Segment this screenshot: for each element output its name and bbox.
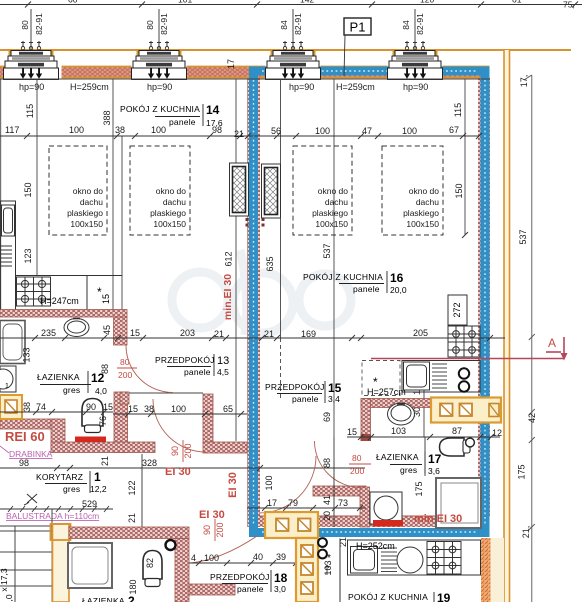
- svg-text:82: 82: [145, 558, 155, 568]
- bathroom12 north wall: [0, 310, 127, 318]
- svg-text:plaskiego: plaskiego: [150, 208, 186, 218]
- wall korytarz/przedpokoj18 vertical: [175, 539, 189, 602]
- dimension labels y=136: [5, 125, 459, 139]
- fridge dashed box 16: [362, 361, 400, 396]
- bathroom17 shower: [436, 478, 481, 528]
- svg-text:47: 47: [362, 126, 372, 136]
- east wall of unit 16 (under blue): [478, 78, 490, 516]
- svg-text:3,0: 3,0: [274, 584, 286, 594]
- svg-text:3,6: 3,6: [428, 466, 440, 476]
- okno do dachu texts: [67, 186, 439, 229]
- svg-text:79: 79: [288, 498, 298, 508]
- room label PRZEDPOKOJ 15: [265, 381, 342, 404]
- wire: party line x281: [280, 79, 282, 338]
- svg-text:84: 84: [401, 20, 411, 30]
- svg-text:12,2: 12,2: [90, 484, 107, 494]
- svg-text:133: 133: [22, 347, 32, 362]
- svg-text:73: 73: [338, 498, 348, 508]
- svg-text:x 17,3: x 17,3: [0, 568, 9, 591]
- svg-text:100: 100: [315, 126, 330, 136]
- dimension chain y=412 (toilet door): [0, 409, 113, 415]
- electrical box 12 (yellow): [0, 395, 22, 419]
- south wall of unit 16 (under blue): [259, 516, 481, 527]
- przedpokoj18 door arc: [191, 536, 257, 563]
- svg-text:H=259cm: H=259cm: [70, 82, 109, 92]
- svg-text:dachu: dachu: [416, 197, 439, 207]
- window leader labels 80 / 82-91: [20, 13, 425, 35]
- svg-text:17: 17: [267, 498, 277, 508]
- kitchen16 knobs: [459, 368, 469, 378]
- svg-text:EI 30: EI 30: [199, 509, 225, 521]
- kitchen19 table circle: [397, 547, 423, 573]
- korytarz inner dim labels: [82, 480, 137, 523]
- svg-text:80: 80: [352, 453, 362, 463]
- red threshold unit16 south: [373, 520, 403, 527]
- svg-text:panele: panele: [169, 117, 196, 127]
- room label POKOJ Z KUCHNIA 16: [303, 271, 407, 295]
- svg-text:115: 115: [453, 103, 463, 117]
- svg-text:14: 14: [206, 103, 220, 117]
- svg-text:80: 80: [145, 20, 155, 30]
- yellow door box bottom (horizontal): [265, 512, 318, 538]
- svg-text:142: 142: [300, 0, 314, 5]
- svg-text:38: 38: [144, 404, 154, 414]
- svg-text:panele: panele: [292, 394, 319, 404]
- svg-text:panele: panele: [353, 284, 380, 294]
- svg-text:15: 15: [347, 427, 357, 437]
- svg-text:hp=90: hp=90: [19, 82, 44, 92]
- svg-text:ŁAZIENKA: ŁAZIENKA: [376, 452, 419, 462]
- svg-text:1: 1: [94, 470, 101, 484]
- dim labels bottom-left: [128, 558, 155, 595]
- svg-text:82-91: 82-91: [159, 13, 169, 35]
- svg-text:okno do: okno do: [156, 186, 187, 196]
- svg-text:74: 74: [36, 402, 46, 412]
- svg-text:15: 15: [103, 402, 113, 412]
- toilet-door U wall bottom band: [51, 442, 155, 453]
- svg-text:21: 21: [234, 129, 244, 139]
- svg-text:17,: 17,: [519, 75, 529, 88]
- svg-text:P1: P1: [350, 20, 366, 35]
- svg-text:635: 635: [265, 256, 275, 271]
- svg-text:17: 17: [428, 452, 442, 466]
- svg-text:dachu: dachu: [163, 197, 186, 207]
- ventilation shaft left: [230, 163, 249, 216]
- top dimension numbers (cut off): [68, 0, 575, 9]
- svg-text:min.EI 30: min.EI 30: [222, 274, 234, 320]
- svg-text:H=259cm: H=259cm: [336, 82, 375, 92]
- svg-text:20,0: 20,0: [390, 285, 407, 295]
- svg-text:PRZEDPOKÓJ: PRZEDPOKÓJ: [210, 572, 270, 582]
- svg-text:45: 45: [102, 325, 112, 335]
- svg-text:4,0: 4,0: [95, 386, 107, 396]
- svg-text:200: 200: [183, 443, 193, 458]
- yellow meter box bottom (vertical): [296, 538, 318, 602]
- bathroom12 door arc: [126, 346, 173, 393]
- svg-text:200: 200: [118, 370, 132, 380]
- svg-text:4: 4: [191, 553, 196, 563]
- dimension chain y=414 (przedpokoj13): [113, 411, 247, 417]
- svg-text:103: 103: [323, 560, 333, 575]
- bathroom17 toilet: [440, 438, 475, 456]
- svg-text:21,: 21,: [521, 526, 531, 539]
- svg-text:15: 15: [328, 381, 342, 395]
- vertical labels mid: [22, 347, 423, 426]
- svg-text:98: 98: [19, 458, 29, 468]
- dimension labels y=338: [41, 325, 428, 339]
- red door label 90/200 rotated (unit18 entry): [202, 519, 225, 541]
- przedpokoj13 north wall piece: [120, 392, 129, 404]
- vertical dim labels upper: [23, 103, 464, 272]
- svg-text:38: 38: [115, 125, 125, 135]
- bath17 dim chain y=437: [347, 434, 500, 440]
- svg-text:272: 272: [452, 302, 462, 317]
- east wall below unit16 (orange hatch): [481, 538, 491, 602]
- dim chain y=563 przedpokoj18: [189, 560, 300, 566]
- svg-text:537: 537: [518, 229, 528, 244]
- svg-text:75,: 75,: [563, 0, 575, 10]
- svg-text:okno do: okno do: [318, 186, 349, 196]
- dim labels kitchen19: [323, 537, 348, 576]
- kitchen19 counter: [340, 539, 481, 602]
- stairs bottom-left: [0, 509, 52, 602]
- bathroom17 west wall: [361, 399, 371, 436]
- svg-text:100x150: 100x150: [153, 219, 186, 229]
- svg-text:100: 100: [402, 126, 417, 136]
- washing machine 12: [0, 366, 16, 392]
- wire: unit16 axis x334: [333, 79, 335, 437]
- svg-text:175: 175: [414, 481, 424, 496]
- shaft 16 box with 272: [448, 295, 467, 325]
- dimension chain y=338: [0, 335, 505, 341]
- svg-text:84: 84: [279, 20, 289, 30]
- bathtub 12: [0, 321, 25, 364]
- svg-text:13: 13: [217, 355, 229, 367]
- svg-text:40: 40: [253, 552, 263, 562]
- red door label 90/200 rotated (korytarz): [170, 440, 193, 462]
- svg-text:41: 41: [322, 495, 332, 505]
- bathroom17 washing machine: [370, 492, 402, 524]
- red fire labels: [5, 274, 239, 521]
- red door label 80/200 (bath12): [117, 357, 137, 380]
- svg-text:235: 235: [41, 328, 56, 338]
- wall end cap: [361, 434, 372, 441]
- red shower threshold: [373, 521, 400, 527]
- svg-text:15: 15: [130, 328, 140, 338]
- svg-text:100x150: 100x150: [70, 219, 103, 229]
- svg-text:100x150: 100x150: [406, 219, 439, 229]
- svg-text:15: 15: [101, 294, 111, 304]
- svg-text:4,5: 4,5: [217, 367, 229, 377]
- bathroom12 east wall upper: [114, 317, 128, 345]
- svg-text:18: 18: [274, 571, 288, 585]
- svg-text:200: 200: [350, 466, 364, 476]
- svg-text:203: 203: [180, 328, 195, 338]
- svg-text:21: 21: [127, 513, 137, 523]
- svg-text:82-91: 82-91: [34, 13, 44, 35]
- bathtub 18: [68, 543, 112, 588]
- svg-text:19: 19: [437, 591, 451, 602]
- korytarz dim chain y=468: [0, 465, 365, 471]
- svg-text:POKÓJ Z KUCHNIA: POKÓJ Z KUCHNIA: [120, 104, 200, 114]
- room label PRZEDPOKOJ 13: [155, 354, 229, 377]
- svg-text:min EI 30: min EI 30: [414, 513, 462, 525]
- svg-text:69: 69: [322, 412, 332, 422]
- red threshold bar korytarz: [75, 437, 106, 443]
- watermark: [172, 250, 351, 335]
- kitchen 14 counter left: [0, 201, 122, 310]
- room label LAZIENKA 17: [376, 452, 442, 476]
- svg-text:ŁAZIENKA: ŁAZIENKA: [82, 596, 125, 602]
- stove 14: [17, 277, 51, 306]
- KORYTARZ room label: [36, 470, 107, 494]
- room label POKOJ Z KUCHNIA 14: [120, 103, 223, 128]
- przedpokoj15 door arc: [259, 456, 316, 513]
- svg-text:101: 101: [178, 0, 192, 5]
- orange vertical double line right: [504, 50, 510, 602]
- przedpokoj13 door arc to korytarz: [153, 399, 206, 452]
- party wall between unit 14 and 16 (under blue): [247, 78, 260, 527]
- svg-text:okno do: okno do: [409, 186, 440, 196]
- svg-text:A: A: [548, 336, 556, 350]
- section A line: [371, 337, 568, 361]
- svg-text:100: 100: [171, 404, 186, 414]
- bathroom12 east wall lower: [114, 392, 128, 453]
- svg-text:17: 17: [226, 59, 236, 69]
- svg-text:dachu: dachu: [325, 197, 348, 207]
- svg-text:okno do: okno do: [73, 186, 104, 196]
- tick on x465 at y235: [462, 232, 468, 238]
- svg-text:175: 175: [517, 464, 527, 479]
- svg-text:17,6: 17,6: [206, 118, 223, 128]
- svg-text:REI 60: REI 60: [5, 429, 45, 444]
- P1 apartment boundary (blue): [254, 71, 486, 533]
- przedpokoj15 dim labels: [264, 458, 424, 521]
- svg-text:87: 87: [452, 426, 462, 436]
- svg-text:hp=90: hp=90: [403, 82, 428, 92]
- svg-text:H=247cm: H=247cm: [40, 296, 79, 306]
- svg-text:ŁAZIENKA: ŁAZIENKA: [37, 372, 80, 382]
- svg-text:80: 80: [20, 20, 30, 30]
- svg-text:PRZEDPOKÓJ: PRZEDPOKÓJ: [155, 355, 215, 365]
- svg-text:120: 120: [420, 0, 434, 5]
- svg-text:82-91: 82-91: [293, 13, 303, 35]
- dashed roof-window boxes: [49, 146, 443, 235]
- toilet-door U wall west band: [0, 419, 58, 429]
- svg-text:537: 537: [322, 243, 332, 258]
- svg-text:BALUSTRADA h=110cm: BALUSTRADA h=110cm: [6, 511, 99, 521]
- svg-text:panele: panele: [184, 367, 211, 377]
- svg-text:388: 388: [102, 110, 112, 125]
- wire: counter line x424: [423, 380, 425, 437]
- interior partition / projection lines: [0, 79, 490, 441]
- bathroom17 north wall: [361, 399, 432, 408]
- svg-text:205: 205: [413, 328, 428, 338]
- svg-text:103: 103: [391, 426, 406, 436]
- wire: left building edge: [0, 79, 2, 310]
- room label POKOJ Z KUCHNIA 19: [348, 591, 451, 602]
- svg-text:KORYTARZ: KORYTARZ: [36, 472, 83, 482]
- orange band top cap: [51, 524, 71, 540]
- svg-text:60: 60: [68, 0, 78, 5]
- balustrade X mark: [24, 494, 37, 505]
- top dimension line: [0, 2, 582, 8]
- room label LAZIENKA 12: [37, 371, 107, 396]
- window W3: [266, 9, 321, 80]
- svg-text:POKÓJ Z KUCHNIA: POKÓJ Z KUCHNIA: [348, 592, 428, 602]
- wire: line x122: [121, 136, 123, 310]
- svg-text:21: 21: [214, 329, 224, 339]
- svg-text:12: 12: [492, 428, 502, 438]
- svg-text:200: 200: [215, 522, 225, 537]
- P1 label box: [344, 18, 371, 35]
- stove 19: [427, 542, 461, 575]
- wire: dim ext x465: [464, 79, 466, 235]
- svg-text:EI 30: EI 30: [227, 472, 239, 498]
- svg-text:42: 42: [527, 413, 537, 423]
- svg-text:122: 122: [127, 480, 137, 495]
- svg-text:21: 21: [264, 329, 274, 339]
- svg-text:plaskiego: plaskiego: [67, 208, 103, 218]
- shaft end dots: [246, 218, 265, 227]
- wire: party line x236: [235, 79, 237, 441]
- svg-text:16: 16: [390, 271, 404, 285]
- svg-text:100: 100: [204, 553, 219, 563]
- toilet-door U wall corner: [51, 419, 65, 452]
- svg-text:117: 117: [5, 125, 19, 135]
- svg-text:100: 100: [151, 125, 166, 135]
- top exterior wall band with hatch: [0, 67, 490, 79]
- svg-text:gres: gres: [400, 465, 417, 475]
- red door label 80/200 (bath17): [349, 453, 371, 476]
- svg-text:150: 150: [454, 183, 464, 198]
- svg-text:1: 1: [5, 383, 9, 390]
- stove 16: [448, 326, 480, 357]
- svg-text:180: 180: [128, 579, 138, 594]
- svg-text:gres: gres: [63, 484, 80, 494]
- svg-text:90: 90: [86, 402, 96, 412]
- svg-text:,0: ,0: [4, 594, 14, 601]
- yellow meter box right (crosses blue wall): [431, 398, 501, 423]
- svg-text:76: 76: [98, 416, 108, 426]
- svg-text:DRABINKA: DRABINKA: [9, 449, 53, 459]
- bottom wall korytarz south: [69, 527, 189, 539]
- svg-text:*: *: [373, 375, 378, 389]
- svg-text:H=252cm: H=252cm: [356, 541, 395, 551]
- wire: dashed x281 below: [280, 338, 282, 400]
- ventilation shaft right: [262, 164, 281, 218]
- bathroom12 washbasin: [64, 319, 89, 337]
- hp=90 and H=259cm labels: [19, 82, 428, 92]
- right outer dim line x=531.8: [524, 75, 535, 602]
- svg-text:dachu: dachu: [80, 197, 103, 207]
- wire: window1 axis down: [36, 79, 38, 276]
- svg-text:panele: panele: [237, 584, 264, 594]
- svg-text:115: 115: [25, 104, 35, 118]
- svg-text:123: 123: [23, 248, 33, 263]
- svg-text:90: 90: [202, 525, 212, 535]
- bathroom17 southwest wall: [360, 487, 370, 527]
- room label LAZIENKA bottom cut: [82, 594, 135, 602]
- svg-text:88: 88: [322, 458, 332, 468]
- orange band bottom-left: [53, 524, 70, 602]
- svg-text:hp=90: hp=90: [289, 82, 314, 92]
- bathroom17 washbasin: [388, 403, 415, 425]
- svg-text:21: 21: [100, 456, 110, 466]
- room label PRZEDPOKOJ 18: [210, 570, 288, 594]
- przedpokoj15 south wall: [313, 486, 366, 496]
- svg-text:67: 67: [449, 125, 459, 135]
- przedpokoj15 dim lines: [247, 437, 425, 527]
- svg-text:82-91: 82-91: [415, 13, 425, 35]
- svg-text:328: 328: [142, 458, 157, 468]
- svg-text:80: 80: [120, 357, 130, 367]
- przedpokoj13 east wall: [203, 394, 213, 443]
- svg-text:plaskiego: plaskiego: [403, 208, 439, 218]
- dimension chain y=136: [0, 133, 482, 139]
- korytarz east dim line: [141, 454, 143, 527]
- svg-text:15: 15: [128, 404, 138, 414]
- svg-text:65: 65: [223, 404, 233, 414]
- orange facade line: [0, 49, 571, 51]
- svg-text:hp=90: hp=90: [147, 82, 172, 92]
- svg-text:150: 150: [23, 182, 33, 197]
- wire: rooms north face: [0, 78, 490, 80]
- svg-text:38: 38: [22, 402, 32, 412]
- svg-text:gres: gres: [63, 385, 80, 395]
- svg-text:100x150: 100x150: [315, 219, 348, 229]
- svg-text:90: 90: [170, 446, 180, 456]
- kitchen19 gas meter circles: [318, 538, 327, 547]
- svg-text:EI 30: EI 30: [165, 466, 191, 478]
- svg-text:POKÓJ Z KUCHNIA: POKÓJ Z KUCHNIA: [303, 272, 383, 282]
- svg-text:88: 88: [100, 364, 110, 374]
- svg-text:169: 169: [301, 329, 316, 339]
- svg-text:PRZEDPOKÓJ: PRZEDPOKÓJ: [265, 382, 325, 392]
- window W1: [4, 9, 59, 80]
- svg-text:3,4: 3,4: [328, 394, 340, 404]
- bathroom17 door arc: [315, 441, 362, 488]
- korytarz north wall band east: [203, 442, 247, 453]
- svg-text:100: 100: [69, 125, 84, 135]
- balustrade line with hatch ticks: [0, 506, 113, 512]
- svg-text:2: 2: [128, 594, 135, 602]
- svg-text:39: 39: [276, 552, 286, 562]
- svg-text:612: 612: [224, 251, 234, 266]
- toilet 18: [143, 551, 162, 587]
- svg-text:100: 100: [264, 475, 274, 490]
- window W2: [132, 9, 187, 80]
- kitchen16 counter with sink: [402, 361, 480, 393]
- wall stub bath18: [189, 584, 235, 595]
- wire: line x113: [112, 79, 114, 310]
- toilet 12: [82, 399, 103, 433]
- window W4: [388, 9, 443, 80]
- svg-text:plaskiego: plaskiego: [312, 208, 348, 218]
- svg-text:56: 56: [271, 126, 281, 136]
- floor drain 18: [166, 540, 176, 550]
- svg-text:20: 20: [322, 511, 332, 521]
- svg-text:61: 61: [512, 0, 522, 5]
